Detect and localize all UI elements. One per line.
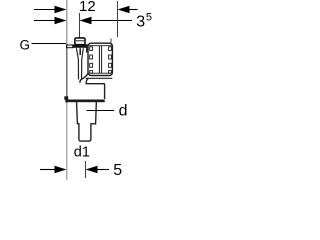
svg-text:G: G (20, 37, 31, 52)
outlet mid box (d) (77, 101, 97, 141)
funnel right line (82, 48, 84, 79)
dimension 5 left arrow (40, 166, 67, 173)
drum rib pair (98, 46, 100, 73)
drum right lugs (109, 47, 112, 73)
extension line B (79, 13, 81, 38)
drum inner bottom line (89, 72, 112, 74)
dimension 3.5 right arrow (80, 17, 133, 24)
inlet cap (75, 38, 85, 45)
svg-text:5: 5 (113, 162, 122, 179)
wall clip (64, 96, 68, 100)
dimension 5 right arrow (86, 166, 110, 173)
outlet center extension line (85, 161, 87, 178)
funnel left line (76, 48, 78, 79)
wall line (66, 0, 68, 44)
mounting bracket (67, 45, 73, 48)
d leader line (87, 110, 114, 112)
drum support shelf (86, 77, 113, 79)
drum top pin (110, 38, 112, 43)
G leader line (32, 43, 67, 45)
dimension 3.5 left arrow (34, 17, 67, 24)
drum hanger link (86, 44, 88, 53)
svg-text:3: 3 (136, 14, 145, 31)
drum left lugs (90, 47, 93, 73)
extension line C (117, 1, 119, 37)
svg-text:12: 12 (79, 0, 96, 15)
inlet flange (73, 44, 88, 47)
body top step curve (86, 78, 104, 99)
dimension 12 right arrow (118, 6, 138, 13)
svg-text:d1: d1 (74, 144, 90, 160)
body bottom bar (65, 100, 104, 103)
svg-text:5: 5 (146, 12, 152, 24)
float drum (88, 43, 112, 75)
funnel pin (79, 48, 81, 55)
float lever arm (80, 74, 88, 83)
inlet cap inner line (76, 40, 84, 42)
drum inner top line (89, 45, 112, 47)
svg-text:d: d (119, 103, 128, 120)
dimension 12 left arrow (34, 6, 67, 13)
